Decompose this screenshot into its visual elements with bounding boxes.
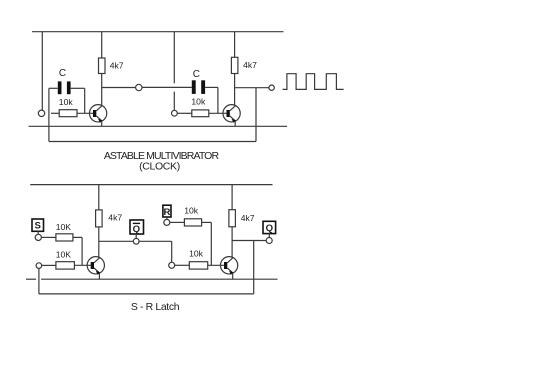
svg-text:10K: 10K xyxy=(56,250,72,260)
svg-text:Q: Q xyxy=(133,224,141,235)
wire top supply rail xyxy=(30,184,272,186)
wire resistor to base Q2 xyxy=(209,112,230,114)
capacitor C2 xyxy=(192,80,218,94)
node R input terminal xyxy=(164,219,170,225)
svg-text:4k7: 4k7 xyxy=(110,61,124,71)
wire top supply rail xyxy=(32,31,284,33)
wire left rail down to input terminal xyxy=(41,32,43,110)
terminal S box xyxy=(32,219,44,234)
wire collector Q2 to output xyxy=(235,87,269,89)
wire collector Q3 to Qbar node xyxy=(99,240,134,242)
node feedback-left terminal xyxy=(36,263,42,269)
wire feedback to resistor xyxy=(42,264,56,266)
wire resistor to base Q4 xyxy=(208,264,227,266)
resistor 10K (S input) xyxy=(56,234,73,241)
node input terminal 2 xyxy=(172,110,178,116)
node Q terminal xyxy=(266,238,272,244)
svg-text:10k: 10k xyxy=(184,206,199,216)
wire divider rail (crosses with gap) xyxy=(173,32,175,84)
wire node to capacitor C2 xyxy=(142,86,192,88)
transistor Q1 xyxy=(89,105,106,127)
svg-text:10k: 10k xyxy=(191,97,206,107)
wire S to resistor xyxy=(41,236,56,238)
wire cross-coupling down xyxy=(171,241,173,262)
wire collector Q4 to Q node xyxy=(232,240,266,242)
svg-text:10K: 10K xyxy=(56,222,72,232)
svg-text:10k: 10k xyxy=(59,97,74,107)
svg-text:4k7: 4k7 xyxy=(108,213,122,223)
node S input terminal xyxy=(35,234,41,240)
svg-text:4k7: 4k7 xyxy=(241,213,255,223)
node collector Q1 tap xyxy=(136,84,142,90)
svg-text:S: S xyxy=(34,221,41,232)
wire feedback bottom xyxy=(49,141,256,143)
resistor 4k7 (collector Q4) xyxy=(229,185,236,258)
node Qbar terminal xyxy=(133,238,139,244)
wire resistor to base Q1 xyxy=(77,112,96,114)
capacitor C1 xyxy=(49,81,85,94)
transistor Q4 xyxy=(220,257,237,280)
transistor Q2 xyxy=(223,105,240,127)
svg-text:10k: 10k xyxy=(189,249,204,259)
wire collector Q1 to node xyxy=(102,87,136,89)
transistor Q3 xyxy=(87,257,104,280)
resistor 10k (base Q1) xyxy=(59,110,77,117)
wire to resistor xyxy=(175,264,190,266)
terminal Qbar box xyxy=(130,220,144,238)
wire S dropper to base Q3 xyxy=(81,237,83,265)
wire resistor R to corner xyxy=(202,221,212,223)
wire resistor to base Q3 xyxy=(74,264,93,266)
wire emitter rail (ground) xyxy=(29,125,288,127)
wire feedback bottom xyxy=(39,293,254,295)
svg-text:Q: Q xyxy=(266,223,274,234)
svg-text:4k7: 4k7 xyxy=(243,60,257,70)
wire cap2 right dropper to base node Q2 xyxy=(217,87,219,113)
wire feedback right vertical xyxy=(255,88,257,142)
svg-text:C: C xyxy=(59,68,66,79)
terminal R box xyxy=(163,205,171,219)
resistor 4k7 (collector Q1) xyxy=(99,32,106,106)
wire feedback-left down xyxy=(38,268,40,294)
wire base wire 1 xyxy=(51,112,59,114)
wire R dropper to base Q4 xyxy=(210,222,212,265)
resistor 4k7 (collector Q2) xyxy=(231,32,238,106)
svg-text:R: R xyxy=(164,207,171,218)
wire feedback right up to Q node xyxy=(253,241,255,294)
resistor 10k (feedback base Q4) xyxy=(189,262,207,269)
svg-text:(CLOCK): (CLOCK) xyxy=(139,160,180,172)
wire emitter rail (ground, with crossover break) xyxy=(26,278,36,280)
resistor 10k (base Q2) xyxy=(192,110,209,117)
node cross-coupling terminal xyxy=(169,262,175,268)
node input terminal 1 xyxy=(38,110,44,116)
wire Qbar node to cross-coupling corner xyxy=(139,240,172,242)
resistor 4k7 (collector Q3) xyxy=(96,185,103,258)
wire cap1 right dropper to base node xyxy=(84,88,86,113)
wire cap1 left dropper (to feedback loop) xyxy=(48,88,50,141)
terminal Q box xyxy=(263,221,276,237)
svg-text:S - R Latch: S - R Latch xyxy=(131,301,180,313)
svg-text:C: C xyxy=(193,69,200,80)
wire resistor S to base node xyxy=(73,236,82,238)
clock waveform symbol xyxy=(283,74,344,90)
wire base wire 2 xyxy=(177,112,192,114)
resistor 10K (feedback base Q3) xyxy=(56,262,75,269)
resistor 10k (R input) xyxy=(184,219,201,226)
wire R to resistor xyxy=(170,221,185,223)
node output terminal xyxy=(269,85,274,90)
